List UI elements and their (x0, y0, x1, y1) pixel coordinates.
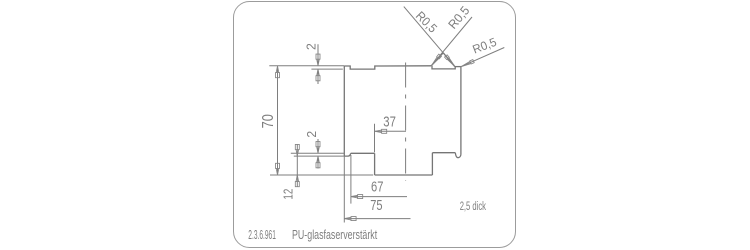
svg-text:2: 2 (304, 131, 319, 138)
arrow leader2 (430, 54, 441, 67)
extension line y153 left (291, 152, 345, 154)
arrow 2 lower down (316, 142, 320, 154)
dimension line 2 upper tails (317, 44, 319, 84)
arrow 75 (344, 217, 356, 221)
bottom left undercut (344, 153, 350, 156)
arrow 2 lower up (316, 156, 320, 168)
dimension line 70 (277, 66, 279, 175)
extension line 37 (374, 124, 376, 153)
dimension line 75 (344, 218, 410, 220)
arrow 70 top (276, 66, 280, 78)
arrow leader3 (460, 60, 474, 69)
extension line notch bottom (2 upper) (311, 68, 342, 70)
arrow 37 (375, 129, 387, 133)
part outline: top edge with notch (344, 66, 431, 69)
dimension line 37 (375, 130, 406, 132)
centerline (405, 63, 407, 182)
part outline: left edge (343, 66, 345, 156)
svg-text:12: 12 (281, 189, 296, 200)
bottom edge right segment (432, 152, 455, 154)
tab right edge (431, 153, 433, 175)
svg-text:2.3.6.961: 2.3.6.961 (248, 228, 276, 242)
right edge (460, 67, 462, 155)
tab left edge (374, 153, 376, 175)
arrow leader1 (445, 55, 457, 68)
svg-text:75: 75 (370, 198, 382, 214)
svg-text:67: 67 (371, 179, 383, 195)
arrow 12 bottom (295, 175, 299, 187)
arrow 70 bottom (276, 163, 280, 175)
arrow 2 upper up (316, 69, 320, 81)
dimension line 12 (296, 144, 298, 187)
tab bottom edge (375, 174, 433, 176)
svg-text:37: 37 (383, 113, 396, 130)
tooth left slope (431, 53, 443, 66)
extension line y156 left (294, 155, 345, 157)
svg-text:2: 2 (304, 43, 319, 50)
svg-text:2,5 dick: 2,5 dick (460, 201, 486, 213)
dimension line 67 (351, 196, 407, 198)
svg-text:PU-glasfaserverstärkt: PU-glasfaserverstärkt (292, 228, 378, 242)
bottom right undercut (455, 153, 461, 158)
tooth right slope (443, 53, 455, 67)
extension line 67 (350, 155, 352, 204)
extension line 75 (343, 156, 345, 222)
extension line bottom (70 / 12) (270, 174, 373, 176)
leader R0,5 no3 (461, 48, 504, 67)
tooth shoulder (455, 66, 461, 68)
dimension line 2 lower tails (317, 139, 319, 169)
leader R0,5 no1 (404, 7, 455, 67)
arrow 67 (351, 195, 363, 199)
border frame (234, 2, 516, 248)
tooth base box (432, 66, 455, 69)
leader R0,5 no2 (431, 17, 472, 66)
svg-text:70: 70 (260, 114, 277, 129)
extension line top (70 / 2 upper) (269, 65, 344, 67)
arrow 2 upper down (316, 54, 320, 66)
arrow 12 top (295, 144, 299, 156)
bottom edge left segment (351, 152, 375, 154)
